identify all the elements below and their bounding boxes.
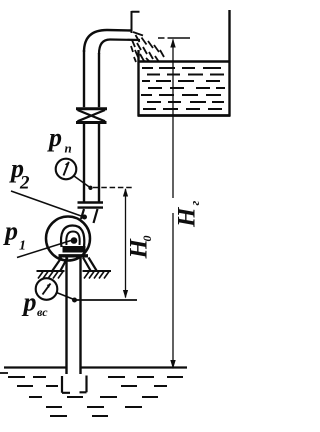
tank left wall	[137, 50, 139, 116]
gauge p_vs leader line	[57, 293, 75, 300]
pump base plate	[59, 254, 89, 257]
junction dot on suction pipe	[72, 298, 77, 303]
pipe outlet end tick	[132, 11, 140, 33]
dimension Hg top arrow	[170, 39, 175, 48]
gauge p_p dial	[56, 159, 77, 180]
gauge p_vs needle	[43, 284, 51, 295]
gauge p_p needle arrowhead	[65, 162, 69, 166]
dimension H0 bottom reference line	[76, 299, 137, 301]
pump hub dot	[71, 237, 78, 244]
pump volute outer arch	[61, 226, 84, 248]
elbow outer wall	[84, 30, 132, 52]
pump right leg	[83, 258, 97, 271]
tank water surface rim line	[139, 60, 229, 62]
gauge p_p leader line	[74, 176, 90, 188]
riser pipe left wall (valve to flange)	[83, 124, 85, 202]
label p_2 leader line	[11, 191, 84, 217]
pump neck right wall	[94, 209, 98, 223]
pump discharge flange upper bar	[78, 201, 104, 203]
dimension Hg vertical line	[172, 40, 174, 369]
riser pipe left wall (upper segment above valve)	[83, 50, 85, 107]
ground hatching right	[84, 272, 109, 279]
pump casing circle	[46, 217, 90, 261]
pump volute inner arch	[66, 232, 79, 246]
svg-text:p2: p2	[9, 154, 30, 194]
dimension Hg bottom arrow	[170, 360, 175, 369]
pump base block	[63, 246, 86, 253]
ground line right patch	[83, 270, 112, 272]
pump left leg	[53, 258, 68, 271]
foot valve right bracket	[80, 376, 87, 393]
junction dot on riser pipe	[88, 186, 92, 190]
gauge p_p needle	[64, 162, 69, 176]
ground line left patch	[37, 270, 65, 272]
elbow inner wall	[99, 40, 140, 55]
svg-text:Hг: Hг	[174, 201, 203, 228]
dimension H0 top reference dashed line	[93, 187, 134, 189]
dimension H0 top arrow	[123, 188, 128, 197]
sump water surface line	[4, 366, 187, 368]
valve top flange bar	[76, 107, 107, 110]
tank bottom	[138, 114, 231, 117]
label p_1 leader line	[17, 240, 73, 258]
pump discharge flange lower bar	[78, 206, 104, 208]
tank right wall	[228, 10, 230, 116]
sump surface left tick	[0, 372, 8, 374]
suction pipe left wall	[65, 257, 67, 374]
tank water dashes	[141, 68, 225, 109]
water jet spray dashes	[131, 32, 164, 62]
dimension H0 vertical line	[125, 189, 127, 298]
riser pipe right wall (valve to flange)	[98, 124, 100, 202]
ground hatching left	[38, 272, 63, 279]
valve bowtie cross	[78, 110, 106, 121]
sump water dashes	[8, 377, 183, 416]
suction pipe right wall	[79, 257, 81, 374]
foot valve left bracket	[62, 376, 70, 393]
svg-text:pп: pп	[47, 123, 72, 156]
valve bottom flange bar	[76, 121, 107, 124]
pump neck left wall	[81, 209, 84, 219]
svg-text:p1: p1	[3, 217, 26, 254]
gauge p_vs dial	[36, 278, 58, 300]
label p_2 leader end dot	[82, 215, 87, 220]
gauge p_vs needle arrowhead	[47, 284, 51, 289]
riser pipe right wall (upper segment above valve)	[98, 53, 100, 107]
dimension Hg top reference line	[158, 37, 190, 39]
svg-text:H0: H0	[126, 236, 155, 260]
dimension H0 bottom arrow	[123, 290, 128, 299]
